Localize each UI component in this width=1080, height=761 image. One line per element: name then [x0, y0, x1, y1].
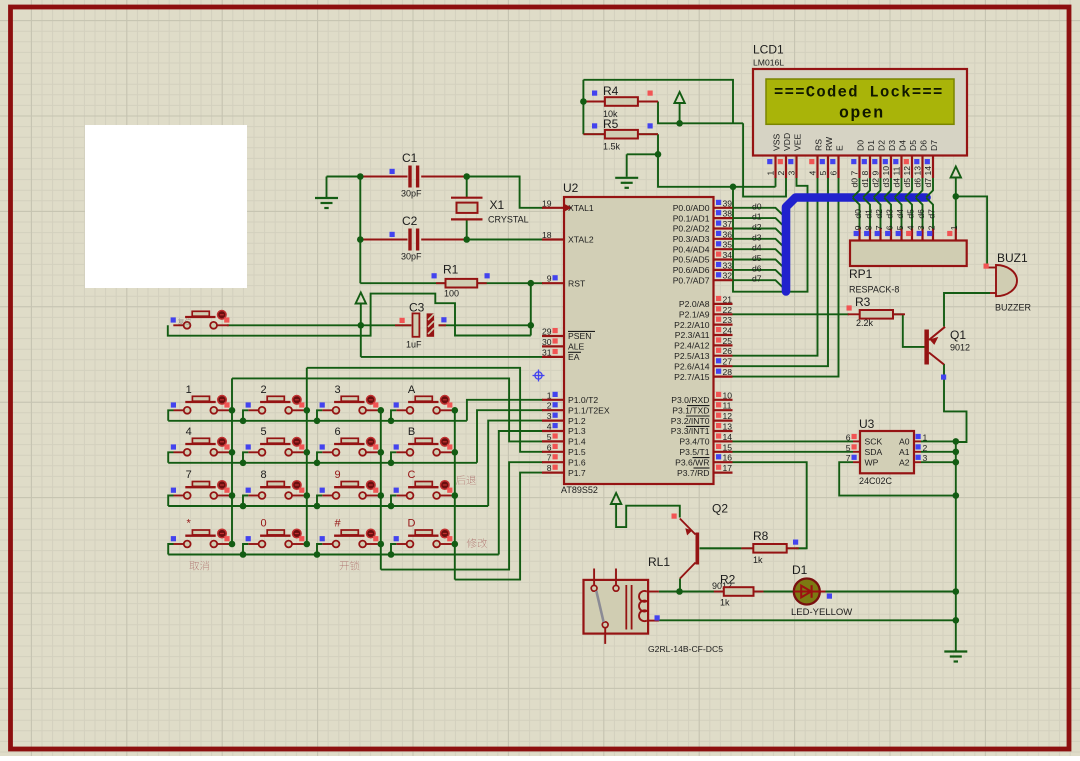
svg-text:19: 19 — [542, 198, 552, 208]
svg-text:P1.0/T2: P1.0/T2 — [568, 395, 598, 405]
keypad button C left drop wire — [391, 496, 396, 507]
wire keypad column 2 — [306, 368, 308, 544]
svg-text:U2: U2 — [563, 181, 579, 195]
U2 pin 12 P3.2/INT0 — [714, 420, 733, 422]
keypad label cancel — [189, 561, 209, 570]
U2 pin 16 P3.6/WR — [714, 461, 733, 463]
svg-text:Q1: Q1 — [950, 328, 966, 342]
svg-text:1k: 1k — [753, 555, 763, 565]
wire R8 to Q2 base — [700, 547, 742, 549]
wire Q2 emitter to +5V — [616, 504, 680, 527]
wire relay coil bottom to ground rail — [659, 619, 956, 621]
wire C2 right to XTAL2 pin 18 — [467, 239, 543, 241]
svg-text:9: 9 — [547, 274, 552, 284]
svg-text:7: 7 — [874, 225, 884, 230]
svg-text:5: 5 — [818, 171, 828, 176]
U3 pin 6 SCK — [853, 440, 860, 442]
wire d6 from P0.6 to bus — [733, 270, 787, 280]
svg-text:29: 29 — [542, 327, 552, 337]
svg-text:P3.3/INT1: P3.3/INT1 — [671, 426, 710, 436]
svg-text:1: 1 — [923, 432, 928, 442]
keypad button 8 — [267, 482, 284, 487]
svg-text:D1: D1 — [866, 140, 876, 151]
U2 pin 25 P2.4/A12 — [714, 344, 733, 346]
svg-text:LCD1: LCD1 — [753, 43, 784, 57]
svg-text:P3.0/RXD: P3.0/RXD — [671, 395, 709, 405]
U2 pin 28 P2.7/A15 — [714, 376, 733, 378]
power +5V arrow at Q2 — [611, 493, 621, 504]
wire bus to RESPACK pin 6 — [884, 198, 891, 229]
svg-text:d5: d5 — [752, 253, 762, 263]
svg-text:d3: d3 — [884, 209, 894, 219]
svg-text:9: 9 — [871, 171, 881, 176]
U2 pin 39 P0.0/AD0 — [714, 207, 733, 209]
crystal X1 — [451, 197, 483, 199]
svg-text:P0.6/AD6: P0.6/AD6 — [673, 265, 710, 275]
svg-text:39: 39 — [723, 198, 733, 208]
svg-text:P0.0/AD0: P0.0/AD0 — [673, 203, 710, 213]
wire LCD D7 to bus — [926, 178, 933, 197]
svg-text:D7: D7 — [929, 140, 939, 151]
U2 pin 19 XTAL1 — [542, 207, 564, 209]
keypad button 9 left drop wire — [317, 496, 322, 507]
ground near R5 — [615, 177, 638, 179]
svg-text:P2.2/A10: P2.2/A10 — [674, 320, 710, 330]
svg-text:d7: d7 — [752, 274, 762, 284]
svg-text:2: 2 — [260, 384, 266, 396]
svg-text:R3: R3 — [855, 295, 871, 309]
wire LED D1 to ground rail — [825, 591, 956, 593]
U3 pin 2 A1 — [914, 451, 921, 453]
svg-text:6: 6 — [884, 225, 894, 230]
svg-text:open: open — [839, 104, 885, 123]
svg-text:P3.2/INT0: P3.2/INT0 — [671, 416, 710, 426]
svg-text:P1.6: P1.6 — [568, 457, 586, 467]
svg-text:#: # — [334, 518, 341, 530]
transistor Q1 9012 — [924, 330, 929, 365]
U3 pin 3 A2 — [914, 461, 921, 463]
svg-text:13: 13 — [723, 422, 733, 432]
svg-text:21: 21 — [723, 294, 733, 304]
svg-text:4: 4 — [905, 225, 915, 230]
wire RST vertical at C3 right — [530, 283, 532, 335]
keypad label modify — [467, 538, 487, 548]
LCD pin 6 E — [837, 156, 839, 179]
LCD pin 10 D3 — [890, 156, 892, 179]
svg-text:2: 2 — [776, 171, 786, 176]
svg-text:7: 7 — [186, 469, 192, 481]
wire relay coil top to R2 — [659, 591, 714, 593]
svg-text:D3: D3 — [887, 140, 897, 151]
svg-text:24C02C: 24C02C — [859, 476, 893, 486]
U2 pin 30 ALE — [542, 345, 564, 347]
LCD pin 13 D6 — [921, 156, 923, 179]
capacitor C1 — [360, 176, 407, 178]
wire keypad column 4 — [454, 410, 456, 579]
wire C3 axis — [227, 324, 411, 326]
svg-text:23: 23 — [723, 315, 733, 325]
relay RL1 G2RL-14B-CF-DC5 — [584, 580, 649, 634]
U2 P3 overlines — [687, 405, 710, 407]
svg-text:1.5k: 1.5k — [603, 142, 621, 152]
junction dots — [580, 98, 587, 105]
svg-text:P1.2: P1.2 — [568, 416, 586, 426]
wire C1 C2 R1 left vertical — [359, 177, 361, 284]
svg-text:d2: d2 — [874, 209, 884, 219]
wire C1 right to XTAL1 pin 19 — [467, 177, 543, 208]
resistor R5 1.5k — [583, 133, 605, 135]
svg-text:G2RL-14B-CF-DC5: G2RL-14B-CF-DC5 — [648, 644, 723, 654]
U2 pin 8 P1.7 — [542, 472, 564, 474]
svg-text:RP1: RP1 — [849, 267, 873, 281]
wire ground branch R5 — [627, 153, 658, 155]
LCD pin 12 D5 — [911, 156, 913, 179]
svg-text:RL1: RL1 — [648, 555, 670, 569]
wire d5 from P0.5 to bus — [733, 260, 787, 270]
wire keypad row 3 — [168, 505, 488, 507]
svg-text:CRYSTAL: CRYSTAL — [488, 215, 529, 225]
wire bus to RESPACK pin 4 — [905, 198, 912, 229]
keypad button C — [415, 482, 432, 487]
svg-text:5: 5 — [547, 432, 552, 442]
keypad button 1 left drop wire — [168, 410, 173, 421]
svg-text:d6: d6 — [752, 263, 762, 273]
svg-text:11: 11 — [892, 166, 902, 175]
wire keypad column 3 — [380, 410, 382, 569]
keypad button 4 left drop wire — [168, 452, 173, 463]
svg-text:VEE: VEE — [793, 134, 803, 151]
svg-text:6: 6 — [846, 432, 851, 442]
svg-text:Q2: Q2 — [712, 502, 728, 516]
wire U3 A0 to ground rail — [921, 440, 956, 442]
svg-text:30pF: 30pF — [401, 252, 422, 262]
ground bottom right — [944, 650, 967, 652]
svg-text:d4: d4 — [892, 178, 902, 188]
keypad button 6 left drop wire — [317, 452, 322, 463]
keypad label unlock — [340, 561, 360, 571]
U3 pin 7 WP — [853, 461, 860, 463]
wire EA to +5V — [361, 356, 543, 358]
keypad button B — [415, 438, 432, 443]
svg-text:P1.5: P1.5 — [568, 447, 586, 457]
keypad button 2 — [267, 396, 284, 401]
wire buzzer bottom to Q1 emitter — [944, 293, 990, 327]
LCD pin 2 VDD — [785, 156, 787, 179]
svg-text:4: 4 — [186, 426, 192, 438]
wire C1 ground branch — [327, 176, 361, 178]
resistor R3 2.2k — [848, 313, 860, 315]
svg-text:P0.7/AD7: P0.7/AD7 — [673, 275, 710, 285]
U2 pin 36 P0.3/AD3 — [714, 238, 733, 240]
svg-text:14: 14 — [923, 166, 933, 176]
keypad button 0 — [267, 530, 284, 535]
svg-text:P0.5/AD5: P0.5/AD5 — [673, 255, 710, 265]
svg-text:32: 32 — [723, 271, 733, 281]
bus LCD data — [786, 198, 927, 292]
wire keypad column 1 — [231, 378, 233, 544]
wire keypad column 3 to P1.6 — [381, 462, 543, 569]
svg-text:A1: A1 — [899, 447, 910, 457]
svg-text:VDD: VDD — [782, 133, 792, 151]
svg-text:P1.7: P1.7 — [568, 468, 586, 478]
svg-text:36: 36 — [723, 229, 733, 239]
svg-text:P2.7/A15: P2.7/A15 — [674, 372, 710, 382]
LCD1 LM016L display — [753, 69, 967, 156]
U2 pin 26 P2.5/A13 — [714, 355, 733, 357]
svg-text:R1: R1 — [443, 263, 459, 277]
wire keypad column 4 to P1.7 — [455, 473, 543, 580]
resistor R2 1k — [680, 591, 724, 593]
U3 pin 5 SDA — [853, 451, 860, 453]
white overlay rectangle — [85, 125, 247, 288]
wire VSS drop — [775, 178, 777, 187]
svg-text:26: 26 — [723, 346, 733, 356]
svg-text:24: 24 — [723, 326, 733, 336]
keypad button 7 — [192, 482, 209, 487]
svg-text:EA: EA — [568, 352, 580, 362]
wire U3 A2 to ground rail — [921, 461, 956, 463]
svg-text:P2.1/A9: P2.1/A9 — [679, 310, 710, 320]
svg-text:2: 2 — [547, 401, 552, 411]
U3 24C02C EEPROM — [860, 431, 914, 473]
power +5V arrow near R4 — [674, 92, 684, 103]
LCD pin 14 D7 — [932, 156, 934, 179]
svg-text:1k: 1k — [720, 598, 730, 608]
wire buzzer top to +5V — [956, 196, 987, 267]
svg-text:P2.3/A11: P2.3/A11 — [675, 330, 710, 340]
wire LCD RS to P2.5 — [733, 178, 818, 356]
svg-text:0: 0 — [260, 518, 266, 530]
svg-text:5: 5 — [260, 426, 266, 438]
wire +5V top rail to R4 R5 — [583, 80, 733, 124]
U2 pin 6 P1.5 — [542, 451, 564, 453]
keypad button 8 left drop wire — [243, 496, 248, 507]
wire P3.6 to R8 — [733, 462, 807, 548]
svg-text:P3.6/WR: P3.6/WR — [675, 457, 709, 467]
svg-text:30: 30 — [542, 337, 552, 347]
svg-text:P3.7/RD: P3.7/RD — [677, 468, 709, 478]
svg-text:8: 8 — [547, 463, 552, 473]
wire crystal X1 top lead — [466, 177, 468, 198]
wire +5V horizontal rail — [658, 102, 743, 124]
svg-text:A0: A0 — [899, 437, 910, 447]
svg-text:C1: C1 — [402, 151, 418, 165]
svg-text:34: 34 — [723, 250, 733, 260]
wire bus to RESPACK pin 2 — [926, 198, 933, 229]
wire LCD D6 to bus — [916, 178, 923, 197]
svg-text:3: 3 — [923, 453, 928, 463]
keypad button 1 — [192, 396, 209, 401]
svg-text:d2: d2 — [871, 178, 881, 188]
svg-text:12: 12 — [902, 166, 912, 176]
svg-text:P0.2/AD2: P0.2/AD2 — [673, 224, 710, 234]
svg-text:25: 25 — [723, 336, 733, 346]
svg-text:C3: C3 — [409, 301, 425, 315]
keypad button 5 left drop wire — [243, 452, 248, 463]
LCD pin 1 VSS — [774, 156, 776, 179]
svg-text:5: 5 — [846, 443, 851, 453]
svg-text:100: 100 — [444, 289, 459, 299]
ground near C1 — [315, 197, 338, 199]
svg-text:A: A — [408, 384, 416, 396]
svg-text:P0.3/AD3: P0.3/AD3 — [673, 234, 710, 244]
wire U3 A1 to ground rail — [921, 451, 956, 453]
svg-text:14: 14 — [723, 432, 733, 442]
U2 pin 33 P0.6/AD6 — [714, 269, 733, 271]
keypad button 2 left drop wire — [243, 410, 248, 421]
U3 pin 1 A0 — [914, 440, 921, 442]
U2 pin 21 P2.0/A8 — [714, 303, 733, 305]
U2 pin 3 P1.2 — [542, 420, 564, 422]
svg-text:4: 4 — [808, 171, 818, 176]
LED D1 LED-YELLOW — [794, 579, 820, 605]
power +5V arrow at C3 — [356, 293, 366, 304]
wire Q1 collector to ground rail — [944, 364, 967, 442]
origin marker — [533, 370, 545, 382]
svg-text:6: 6 — [547, 442, 552, 452]
svg-text:BUZZER: BUZZER — [995, 303, 1032, 313]
wire crystal X1 bottom lead — [466, 219, 468, 239]
svg-text:LM016L: LM016L — [753, 58, 784, 68]
svg-text:1: 1 — [949, 225, 959, 230]
svg-text:X1: X1 — [490, 198, 505, 212]
svg-text:P3.5/T1: P3.5/T1 — [679, 447, 709, 457]
wire RESPACK pin1 to +5V — [955, 178, 957, 229]
wire d4 from P0.4 to bus — [733, 249, 787, 259]
keypad button * left drop wire — [168, 544, 173, 555]
svg-text:B: B — [408, 426, 415, 438]
svg-text:18: 18 — [542, 230, 552, 240]
U2 pin 15 P3.5/T1 — [714, 451, 733, 453]
U2 pin 24 P2.3/A11 — [714, 334, 733, 336]
svg-text:RESPACK-8: RESPACK-8 — [849, 285, 899, 295]
svg-text:P0.1/AD1: P0.1/AD1 — [673, 213, 710, 223]
svg-text:AT89S52: AT89S52 — [561, 485, 598, 495]
svg-text:35: 35 — [723, 240, 733, 250]
svg-text:2.2k: 2.2k — [856, 318, 874, 328]
svg-text:XTAL2: XTAL2 — [568, 235, 594, 245]
keypad button 7 left drop wire — [168, 496, 173, 507]
svg-text:6: 6 — [334, 426, 340, 438]
svg-text:22: 22 — [723, 305, 733, 315]
U2 pin 22 P2.1/A9 — [714, 313, 733, 315]
svg-text:15: 15 — [723, 442, 733, 452]
svg-text:3: 3 — [547, 411, 552, 421]
svg-text:1uF: 1uF — [406, 340, 422, 350]
LCD pin 5 RW — [827, 156, 829, 179]
svg-text:P1.4: P1.4 — [568, 437, 586, 447]
capacitor C2 — [360, 239, 407, 241]
wire keypad column 1 to P1.4 — [232, 378, 543, 441]
svg-text:P2.5/A13: P2.5/A13 — [674, 351, 710, 361]
svg-text:E: E — [835, 145, 845, 151]
svg-text:R5: R5 — [603, 117, 619, 131]
svg-text:16: 16 — [723, 453, 733, 463]
wire P3.4 to U3 SCK — [733, 440, 854, 442]
svg-text:d2: d2 — [752, 222, 762, 232]
keypad button 5 — [267, 438, 284, 443]
svg-text:7: 7 — [846, 453, 851, 463]
svg-text:d3: d3 — [881, 178, 891, 188]
svg-text:*: * — [187, 518, 192, 530]
wire d3 from P0.3 to bus — [733, 239, 787, 249]
wire keypad row 4 — [168, 554, 499, 556]
U2 pin 32 P0.7/AD7 — [714, 279, 733, 281]
svg-text:ALE: ALE — [568, 342, 585, 352]
wire VEE to ground rail — [733, 178, 808, 292]
wire R3 to Q1 base — [893, 314, 925, 347]
U2 pin 34 P0.5/AD5 — [714, 258, 733, 260]
svg-text:17: 17 — [723, 463, 733, 473]
U2 AT89S52 microcontroller — [564, 197, 714, 484]
svg-text:d1: d1 — [860, 178, 870, 188]
keypad button 0 left drop wire — [243, 544, 248, 555]
svg-text:28: 28 — [723, 367, 733, 377]
wire LCD D4 to bus — [895, 178, 902, 197]
keypad button 3 — [341, 396, 358, 401]
wire d0 from P0.0 to bus — [733, 208, 787, 218]
svg-text:LED-YELLOW: LED-YELLOW — [791, 607, 852, 618]
svg-text:8: 8 — [863, 225, 873, 230]
svg-text:XTAL1: XTAL1 — [568, 203, 594, 213]
svg-text:d4: d4 — [895, 209, 905, 219]
svg-text:D5: D5 — [908, 140, 918, 151]
svg-text:RST: RST — [568, 278, 586, 288]
wire VDD +5V drop — [743, 123, 786, 196]
wire R5 right to ground and VSS rail — [658, 134, 776, 187]
keypad button * — [192, 530, 209, 535]
wire bus to RESPACK pin 8 — [863, 198, 870, 229]
svg-text:SCK: SCK — [865, 437, 883, 447]
svg-text:d7: d7 — [923, 178, 933, 188]
svg-text:7: 7 — [547, 453, 552, 463]
U2 pin 2 P1.1/T2EX — [542, 409, 564, 411]
svg-text:A2: A2 — [899, 457, 910, 467]
transistor Q2 9012 — [696, 533, 700, 565]
svg-text:d1: d1 — [752, 212, 762, 222]
power +5V arrow at RESPACK — [951, 167, 961, 178]
wire P2.1 to R3 — [733, 313, 850, 315]
wire R1 right to RST pin 9 — [531, 282, 543, 284]
wire keypad row 2 — [168, 462, 477, 464]
svg-text:d6: d6 — [913, 178, 923, 188]
resistor R1 — [360, 282, 445, 284]
wire d1 from P0.1 to bus — [733, 218, 787, 228]
U2 pin 17 P3.7/RD — [714, 472, 733, 474]
U2 pin 9 RST — [542, 282, 564, 284]
U2 pin 27 P2.6/A14 — [714, 365, 733, 367]
keypad button 4 — [192, 438, 209, 443]
U2 pin 5 P1.4 — [542, 440, 564, 442]
wire Q2 collector to relay R2 node — [679, 579, 681, 592]
svg-text:D2: D2 — [877, 140, 887, 151]
svg-text:RS: RS — [814, 139, 824, 151]
svg-text:9: 9 — [334, 469, 340, 481]
keypad label back — [456, 475, 476, 484]
svg-text:WP: WP — [865, 457, 879, 467]
LCD pin 7 D0 — [858, 156, 860, 179]
wire d7 from P0.7 to bus — [733, 280, 787, 290]
U2 pin 31 EA — [542, 356, 564, 358]
wire LCD D3 to bus — [884, 178, 891, 197]
svg-text:37: 37 — [723, 219, 733, 229]
svg-text:27: 27 — [723, 357, 733, 367]
svg-text:1: 1 — [186, 384, 192, 396]
svg-text:P2.0/A8: P2.0/A8 — [679, 299, 710, 309]
svg-text:38: 38 — [723, 209, 733, 219]
svg-text:P3.1/TXD: P3.1/TXD — [672, 405, 709, 415]
svg-text:1: 1 — [766, 171, 776, 176]
